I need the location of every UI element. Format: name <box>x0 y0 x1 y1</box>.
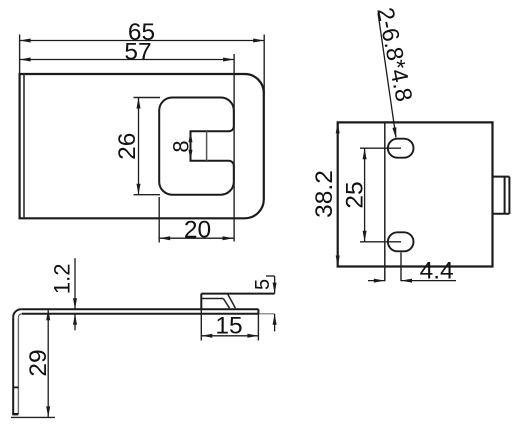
dim 15 line <box>201 335 258 337</box>
dim 20 arrow right <box>223 236 234 240</box>
dim 29 arrow bottom <box>46 406 50 417</box>
dim 57 arrow left <box>20 58 31 62</box>
dim 57 arrow right <box>223 58 234 62</box>
dim 65 arrow right <box>253 39 264 43</box>
side tab inner edge <box>504 177 506 214</box>
svg-text:26: 26 <box>114 133 141 160</box>
svg-text:38.2: 38.2 <box>311 170 338 218</box>
dim 5 arrow down <box>273 283 277 294</box>
svg-text:57: 57 <box>124 38 151 65</box>
side view body rectangle <box>338 122 493 266</box>
slot hole bottom <box>388 232 414 251</box>
dim 20 extension line left <box>158 197 160 243</box>
dim 1.2 lower line <box>74 314 76 331</box>
svg-text:8: 8 <box>169 140 194 152</box>
dim 25 line <box>364 148 366 242</box>
dim 4.4 line left part <box>368 280 385 282</box>
dim 25 extension line bottom <box>360 241 401 243</box>
notch inner edge line <box>206 131 208 161</box>
svg-text:4.4: 4.4 <box>420 257 454 284</box>
hook tab underside edge <box>201 298 223 300</box>
front view strip bottom edge extension (gray) <box>258 313 274 315</box>
hole callout leader line <box>378 13 396 138</box>
dim 5 arrow up <box>273 314 277 325</box>
top view body outline <box>20 74 264 218</box>
svg-text:5: 5 <box>252 279 274 290</box>
strip right end edge <box>257 309 259 314</box>
slot hole top <box>388 139 414 158</box>
front view leg outer edge <box>12 317 14 414</box>
dim 4.4 line right part <box>401 280 456 282</box>
dim 1.2 arrow down <box>73 298 77 309</box>
top view left bend tangent line <box>23 74 25 218</box>
dim 15 extension line left <box>200 309 202 340</box>
dim 57 line <box>20 59 235 61</box>
dim 25 arrow bottom <box>363 231 367 242</box>
svg-text:25: 25 <box>342 181 369 208</box>
dim 57 extension line right (long, also cutout right edge extension) <box>233 54 235 242</box>
dim 4.4 arrow left <box>374 279 385 283</box>
dim 15 arrow right <box>247 334 258 338</box>
dim 15 extension line right <box>257 314 259 341</box>
front view leg inner edge <box>17 317 19 414</box>
dim 25 extension line top <box>360 147 401 149</box>
svg-text:20: 20 <box>184 216 211 243</box>
hole callout leader arrow <box>392 127 396 138</box>
dim 26 arrow bottom <box>137 184 141 195</box>
dim 5 lower line <box>274 314 276 332</box>
dim 20 arrow left <box>159 236 170 240</box>
front view strip top edge <box>21 308 258 310</box>
hook bend outer diagonal <box>228 294 236 309</box>
dim 5 upper line <box>274 276 276 294</box>
dim 29 arrow top <box>46 309 50 320</box>
dim 26 extension line bottom <box>134 194 161 196</box>
side view bend line vertical <box>384 122 386 281</box>
dim 65 extension line right <box>263 35 265 96</box>
front view leg bottom cap <box>12 413 18 415</box>
dim 8 arrow bottom <box>189 150 193 161</box>
top view slot cutout with notch <box>159 98 234 195</box>
dim 15 arrow left <box>201 334 212 338</box>
hook bend inner diagonal <box>223 299 229 309</box>
dim 26 extension line top <box>134 97 161 99</box>
dim 26 line <box>138 98 140 195</box>
dim 26 arrow top <box>137 98 141 109</box>
dim 65 line <box>20 40 265 42</box>
dim 1.2 arrow up <box>73 314 77 325</box>
dim 8 arrow top <box>189 131 193 142</box>
front view inner bend arc <box>18 314 22 318</box>
front view strip bottom edge <box>22 313 259 315</box>
side tab lower edge <box>493 213 510 215</box>
front view leg tick mark <box>13 386 18 388</box>
dim 25 arrow top <box>363 148 367 159</box>
dim 65 extension line left <box>19 35 21 75</box>
dim 38.2 arrow top <box>336 122 340 133</box>
dim 4.4 extension line right <box>400 253 402 282</box>
dim 20 line <box>159 237 233 239</box>
hook tab left edge <box>200 294 202 310</box>
dim 65 arrow left <box>20 39 31 43</box>
dim 29 extension line bottom <box>11 416 55 418</box>
hook tab top edge <box>201 293 274 295</box>
svg-text:29: 29 <box>25 349 52 376</box>
svg-text:1.2: 1.2 <box>50 264 75 295</box>
dim 38.2 arrow bottom <box>336 256 340 267</box>
svg-text:15: 15 <box>215 313 242 340</box>
front view outer bend arc <box>13 309 21 317</box>
dim 4.4 arrow right <box>401 279 412 283</box>
dim 1.2 upper line <box>74 258 76 309</box>
side tab outer edge <box>508 177 510 214</box>
dim 5 upper tick <box>266 275 275 277</box>
side tab upper edge <box>493 176 510 178</box>
dim 29 line <box>47 309 49 417</box>
